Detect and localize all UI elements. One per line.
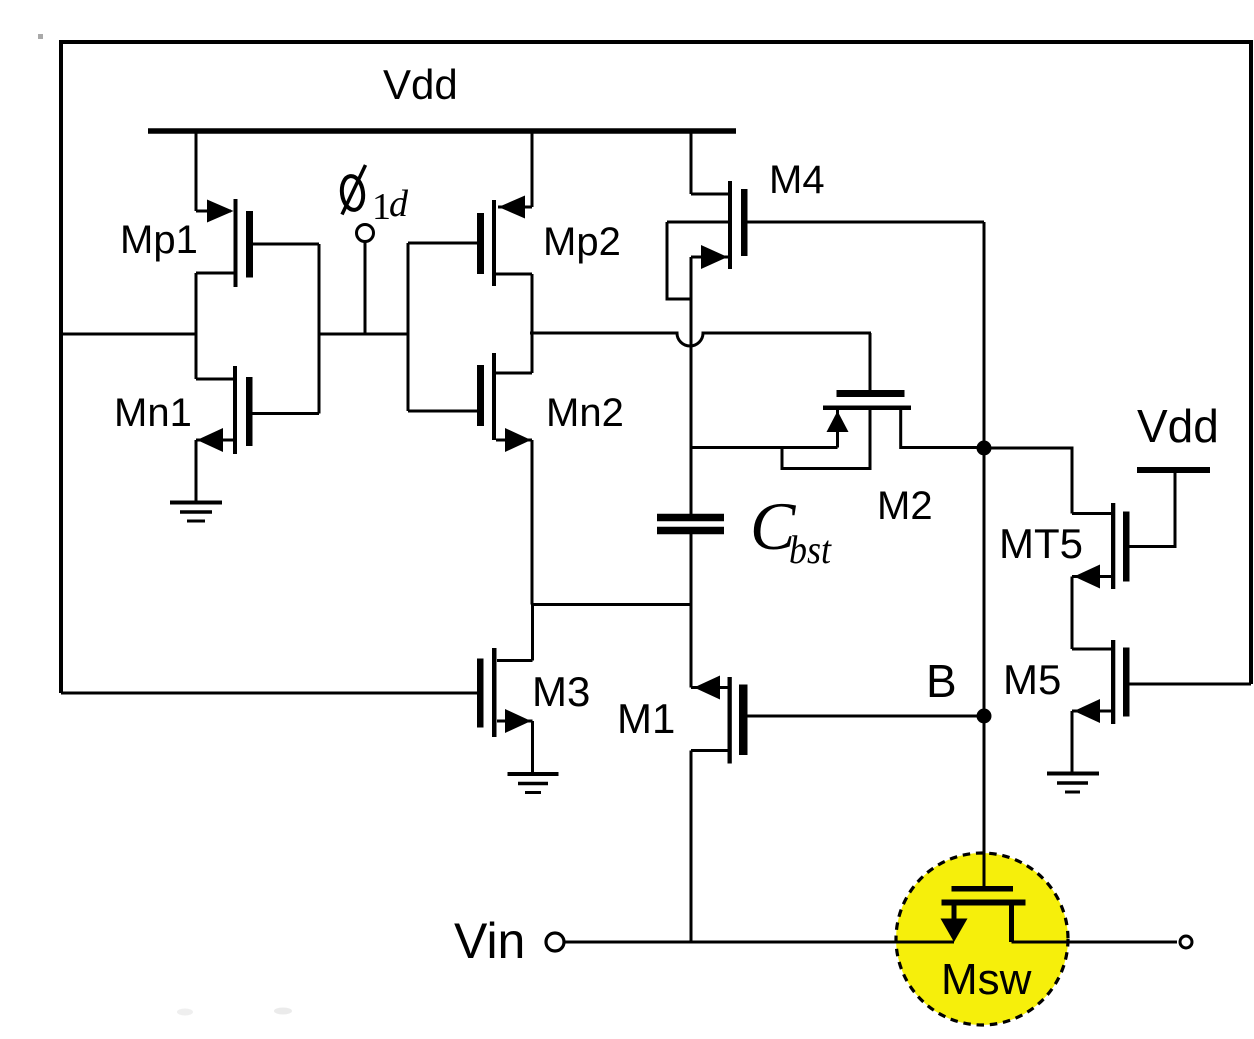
svg-text:M4: M4 <box>769 158 825 202</box>
wire Mp2 source to Vdd <box>531 129 534 207</box>
wire M4 gate node vertical <box>983 222 986 887</box>
transistor MT5 <box>1072 473 1175 649</box>
speck top-left <box>38 34 43 39</box>
Vdd rail <box>148 128 736 134</box>
smudge bottom-left b <box>274 1008 292 1015</box>
capacitor Cbst <box>657 518 724 688</box>
wire node to MT5 <box>984 448 1072 514</box>
node dot (M4 gate / M2 drain) <box>977 441 992 456</box>
wire phi1d input <box>319 333 408 336</box>
wire Mp1 drain to Mn1 drain <box>195 273 198 379</box>
node B dot <box>977 709 992 724</box>
transistor Mp2 <box>408 196 532 287</box>
terminal phi1d <box>357 225 374 335</box>
terminal output <box>1180 936 1192 948</box>
transistor M2 <box>691 333 984 469</box>
svg-text:Vdd: Vdd <box>383 61 458 108</box>
svg-text:M2: M2 <box>877 484 933 528</box>
svg-text:Mn1: Mn1 <box>114 391 192 435</box>
svg-text:Msw: Msw <box>941 955 1032 1004</box>
transistor Mn1 <box>196 366 319 501</box>
wire Mn2 source to Cbst bottom <box>532 603 691 606</box>
wire M3 drain up <box>531 605 534 661</box>
svg-text:Vdd: Vdd <box>1137 400 1219 452</box>
transistor M1 <box>691 676 984 943</box>
transistor Mp1 <box>196 199 319 287</box>
wire M4 source to Vdd <box>690 129 693 194</box>
wire inverter1 output to border <box>61 333 196 336</box>
wire Vin to Msw source <box>565 941 955 944</box>
wire Msw drain to output terminal <box>1012 941 1178 944</box>
ground below M3 <box>508 774 559 793</box>
svg-text:M1: M1 <box>617 695 675 742</box>
ground below M5 <box>1047 774 1099 793</box>
phi1d label <box>340 165 366 215</box>
svg-text:B: B <box>926 655 957 707</box>
wire M4 drain down to Cbst <box>690 257 693 514</box>
svg-text:bst: bst <box>789 527 832 572</box>
wire Mp1 source to Vdd <box>195 129 198 211</box>
svg-text:Mp1: Mp1 <box>120 218 198 262</box>
svg-text:Mn2: Mn2 <box>546 391 624 435</box>
smudge bottom-left a <box>177 1009 193 1016</box>
Vdd bar right <box>1137 467 1210 473</box>
wire inverter1 gates <box>318 244 321 414</box>
transistor M4 <box>667 181 984 299</box>
wire Mp2 drain to Mn2 drain <box>531 274 534 373</box>
transistor Mn2 <box>408 353 532 605</box>
svg-text:MT5: MT5 <box>999 520 1083 567</box>
transistor Msw <box>941 716 1026 942</box>
transistor M5 <box>1072 640 1251 773</box>
transistor M3 <box>61 648 533 774</box>
svg-text:M5: M5 <box>1003 656 1061 703</box>
svg-text:M3: M3 <box>532 668 590 715</box>
svg-text:Mp2: Mp2 <box>543 220 621 264</box>
ground below Mn1 <box>170 503 222 522</box>
terminal Vin <box>546 933 564 951</box>
wire inverter2 output to M2 gate (hop over vertical) <box>530 333 871 346</box>
wire inverter2 gates <box>407 243 410 411</box>
svg-text:d: d <box>389 183 409 225</box>
Msw highlight circle <box>896 853 1068 1025</box>
svg-text:Vin: Vin <box>454 913 525 969</box>
wire outer border loop (inverter1 output to M3/M5 gates) <box>61 42 1251 693</box>
